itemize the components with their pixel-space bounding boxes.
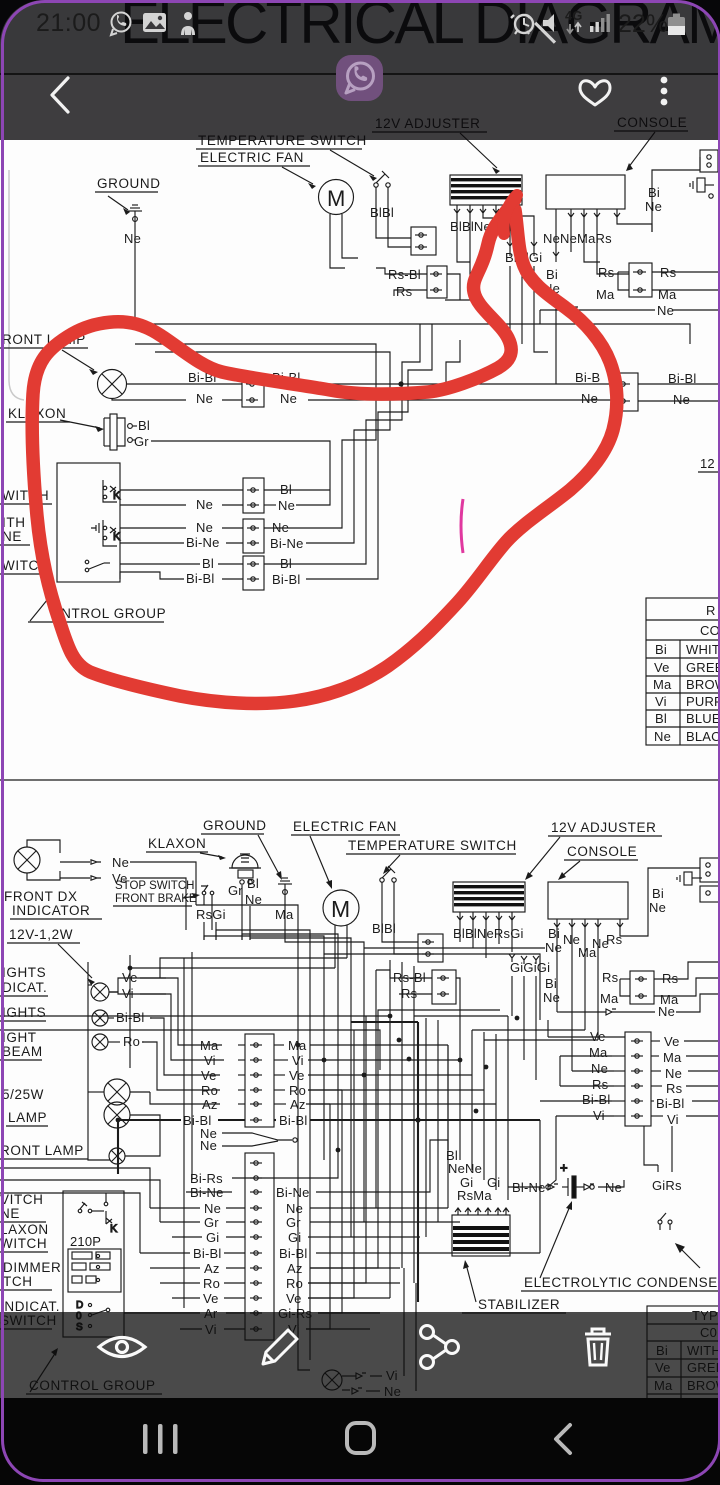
connector JA fig2 [418, 934, 443, 962]
4G icon [565, 8, 582, 33]
dimmer block [68, 1249, 121, 1292]
svg-text:210P: 210P [70, 1234, 101, 1249]
svg-text:GROUND: GROUND [203, 818, 267, 833]
svg-text:STABILIZER: STABILIZER [478, 1297, 560, 1312]
TEMPERATURE SWITCH label fig2 [346, 838, 517, 874]
switch S3 inside control group [85, 560, 110, 572]
svg-text:GROUND: GROUND [97, 176, 161, 191]
svg-text:Bi-Ne: Bi-Ne [186, 535, 220, 550]
svg-text:Gr: Gr [204, 1215, 219, 1230]
svg-text:4G: 4G [565, 8, 582, 23]
ground symbol fig2 [278, 878, 292, 940]
switch K1 inside control group [103, 480, 121, 502]
STOP SWITCH FRONT BRAKE label [113, 880, 200, 906]
svg-text:Rs: Rs [592, 1077, 609, 1092]
svg-text:Ma: Ma [589, 1045, 608, 1060]
ELECTROLYTIC CONDENSER label [521, 1201, 720, 1291]
svg-text:Bi-Bl: Bi-Bl [186, 571, 214, 586]
svg-text:RONT LAMP: RONT LAMP [0, 1143, 84, 1158]
klaxon dome fig2 [229, 854, 261, 884]
console component [546, 175, 625, 209]
right edge component speaker [690, 150, 718, 198]
connector J7 [243, 519, 264, 553]
klaxon component [104, 414, 132, 450]
svg-text:Ma: Ma [653, 677, 672, 692]
svg-text:Ne: Ne [196, 497, 213, 512]
electrolytic condenser symbol [546, 1160, 594, 1198]
svg-text:Gr: Gr [134, 434, 149, 449]
bottom lamp visible [322, 1370, 382, 1394]
svg-text:Bi: Bi [652, 886, 664, 901]
svg-text:Ne: Ne [654, 729, 671, 744]
Bi ne pin [553, 252, 559, 262]
left labels column [0, 965, 88, 1159]
svg-text:Ne: Ne [112, 855, 129, 870]
arrow right bottom [676, 1244, 700, 1268]
switch K2 inside control group [91, 520, 121, 546]
svg-text:NeNe: NeNe [448, 1161, 482, 1176]
svg-text:WITCH: WITCH [0, 1236, 47, 1251]
color table fig1 [646, 598, 720, 745]
svg-text:Rs: Rs [598, 265, 615, 280]
svg-text:BLACK: BLACK [686, 729, 720, 744]
connector C1 [245, 1034, 274, 1127]
svg-text:GiGiGi: GiGiGi [510, 960, 550, 975]
svg-text:Ne: Ne [657, 303, 674, 318]
row B wires Ne/Bi-Ne [120, 527, 186, 529]
kebab menu [661, 77, 668, 106]
photo edge curve [9, 170, 24, 400]
muted speaker icon [534, 14, 556, 44]
svg-text:Ma: Ma [596, 287, 615, 302]
svg-text:Ne: Ne [196, 391, 213, 406]
nested bus rectangles [135, 324, 460, 407]
CONSOLE label fig2 [558, 844, 638, 880]
svg-text:Bi: Bi [545, 976, 557, 991]
svg-text:Bi-Bl: Bi-Bl [656, 1096, 684, 1111]
row A wires Ne/Bl [120, 489, 243, 491]
svg-text:Ne: Ne [658, 1004, 675, 1019]
svg-text:Bi-Bl: Bi-Bl [279, 1113, 307, 1128]
svg-text:M: M [327, 186, 345, 211]
svg-text:STOP SWITCH: STOP SWITCH [115, 880, 194, 892]
svg-text:Ma: Ma [600, 991, 619, 1006]
svg-text:Ne: Ne [278, 498, 295, 513]
klaxon wires [133, 425, 137, 427]
svg-text:Bi-Bl: Bi-Bl [582, 1092, 610, 1107]
signal bars icon [590, 14, 610, 32]
svg-text:Ne: Ne [124, 231, 141, 246]
svg-text:DICAT.: DICAT. [2, 980, 47, 995]
12V-1,2W label [7, 927, 95, 985]
wires from motor down [330, 214, 345, 268]
svg-text:RsGi: RsGi [196, 907, 226, 922]
front lamp small [109, 1148, 125, 1164]
stop switch [201, 885, 214, 930]
svg-text:12: 12 [700, 456, 715, 471]
GROUND label fig2 [201, 818, 282, 880]
wire long bus y324 [135, 324, 690, 344]
svg-text:Ro: Ro [203, 1276, 220, 1291]
svg-text:Ma: Ma [663, 1050, 682, 1065]
Ne right wire fig2 [560, 1009, 655, 1015]
svg-text:Bi-Bl: Bi-Bl [116, 1010, 144, 1025]
left cut label ITH NE [0, 515, 30, 545]
wires temp switch to connector [376, 198, 411, 238]
svg-text:Ne: Ne [673, 392, 690, 407]
svg-text:Bi-Bl: Bi-Bl [279, 1246, 307, 1261]
ground symbol [128, 205, 142, 324]
connector J8 [243, 556, 264, 590]
whatsapp notification icon [111, 13, 131, 36]
cg2 K switch [106, 1211, 118, 1235]
right edge speaker fig2 [677, 858, 720, 902]
bold bus vertical [417, 1022, 419, 1302]
svg-text:ITH: ITH [2, 515, 26, 530]
svg-text:LAXON: LAXON [0, 1222, 49, 1237]
motor M fig2 [323, 890, 359, 926]
wires rs-bl [376, 268, 427, 274]
cg2 left labels [0, 1192, 61, 1329]
console component fig2 [548, 882, 628, 919]
svg-text:IGHT: IGHT [2, 1030, 37, 1045]
color table fig2 [647, 1306, 720, 1480]
control group label [28, 591, 166, 622]
svg-text:Bi-Bl: Bi-Bl [193, 1246, 221, 1261]
svg-text:+: + [560, 1160, 568, 1175]
svg-text:Ne: Ne [545, 940, 562, 955]
svg-text:Ve: Ve [289, 1068, 305, 1083]
connector C2 tall [245, 1153, 274, 1340]
svg-text:Bi-Ne: Bi-Ne [276, 1185, 310, 1200]
C2 right wires [274, 1160, 540, 1329]
svg-text:IGHTS: IGHTS [2, 1005, 46, 1020]
svg-text:12V ADJUSTER: 12V ADJUSTER [551, 820, 656, 835]
svg-text:Ne: Ne [591, 1061, 608, 1076]
red annotation loop [32, 199, 617, 703]
svg-text:KLAXON: KLAXON [148, 836, 206, 851]
svg-text:Ne: Ne [581, 391, 598, 406]
svg-text:BROWN: BROWN [686, 677, 720, 692]
svg-text:FRONT BRAKE: FRONT BRAKE [115, 893, 197, 905]
whatsapp purple badge [336, 55, 383, 101]
BlBlGi wires down [509, 266, 511, 330]
big lamp 5/25W [104, 1079, 130, 1105]
svg-text:Ve: Ve [664, 1034, 680, 1049]
svg-text:Rs: Rs [602, 970, 619, 985]
FRONT DX INDICATOR label [4, 889, 102, 919]
svg-text:Ro: Ro [286, 1276, 303, 1291]
trash tool icon [585, 1329, 611, 1365]
svg-text:Bi-B: Bi-B [575, 370, 600, 385]
D0S switch [76, 1300, 110, 1333]
motor M electric fan [319, 180, 354, 215]
svg-text:CO: CO [700, 623, 720, 638]
svg-text:Rs: Rs [666, 1081, 683, 1096]
svg-text:21:00: 21:00 [36, 9, 101, 37]
svg-text:Gr: Gr [228, 883, 243, 898]
left cut label WITCH2 [0, 558, 52, 574]
svg-text:Ve: Ve [286, 1291, 302, 1306]
svg-text:NE: NE [2, 529, 22, 544]
svg-text:Ne: Ne [280, 391, 297, 406]
svg-text:Ve: Ve [122, 970, 138, 985]
STABILIZER label [462, 1260, 566, 1313]
svg-text:Az: Az [204, 1261, 220, 1276]
svg-text:Ne: Ne [649, 900, 666, 915]
C2 left wires [124, 1150, 338, 1329]
svg-text:Ne: Ne [196, 520, 213, 535]
svg-text:BlBlNeRsGi: BlBlNeRsGi [453, 926, 524, 941]
svg-text:CONSOLE: CONSOLE [567, 844, 637, 859]
label TEMPERATURE SWITCH [196, 133, 377, 181]
svg-text:Ne: Ne [204, 1201, 221, 1216]
share tool icon [421, 1326, 459, 1369]
ELECTRIC FAN label fig2 [291, 819, 400, 889]
svg-text:K: K [113, 531, 121, 543]
svg-text:K: K [113, 490, 121, 502]
svg-text:NE: NE [0, 1206, 20, 1221]
adjuster wires down [457, 213, 470, 262]
KLAXON label [6, 406, 104, 432]
extra mesh verticals center [306, 1010, 500, 1329]
junction dot [398, 381, 403, 386]
Ne right bottom wire [540, 307, 655, 313]
svg-text:12V-1,2W: 12V-1,2W [9, 927, 73, 942]
svg-text:Vi: Vi [667, 1112, 679, 1127]
front lamp row wires Bi-Bl / Ne [126, 383, 242, 385]
svg-text:Ne: Ne [200, 1138, 217, 1153]
svg-text:Bi-Ne: Bi-Ne [270, 536, 304, 551]
svg-text:Bl: Bl [247, 876, 259, 891]
svg-text:RsMa: RsMa [457, 1188, 492, 1203]
connector J4 [242, 374, 264, 407]
svg-text:ELECTROLYTIC CONDENSER: ELECTROLYTIC CONDENSER [524, 1275, 720, 1290]
temperature switch S1 [374, 171, 390, 198]
stabilizer component [455, 1208, 509, 1215]
svg-text:Rs: Rs [396, 284, 413, 299]
wires right top [652, 157, 700, 232]
svg-text:M: M [331, 896, 350, 922]
svg-text:Ro: Ro [123, 1034, 140, 1049]
svg-text:NeNeMaRs: NeNeMaRs [543, 231, 612, 246]
console pins [556, 209, 620, 217]
svg-text:LAMP: LAMP [8, 1110, 47, 1125]
svg-text:Bi: Bi [655, 642, 667, 657]
temperature switch fig2 [380, 866, 396, 905]
svg-text:ELECTRIC FAN: ELECTRIC FAN [200, 150, 304, 165]
svg-text:Gr: Gr [286, 1215, 301, 1230]
svg-text:Vi: Vi [655, 694, 667, 709]
svg-text:DIMMER: DIMMER [3, 1260, 61, 1275]
connector C3 right [625, 1032, 651, 1126]
cg2 switch top [78, 1193, 108, 1213]
svg-text:Ve: Ve [203, 1291, 219, 1306]
left rail [88, 962, 110, 1160]
wires J3 [618, 271, 629, 273]
svg-text:BlBl: BlBl [372, 921, 396, 936]
svg-text:GiRs: GiRs [652, 1178, 682, 1193]
pencil tool icon [263, 1330, 297, 1364]
svg-text:IGHTS: IGHTS [2, 965, 46, 980]
label GROUND [95, 176, 161, 215]
svg-text:VITCH: VITCH [0, 1192, 44, 1207]
mesh vertical bus wires center [0, 905, 598, 1329]
bus wires to right [264, 383, 612, 385]
svg-text:INDICATOR: INDICATOR [12, 903, 90, 918]
lamp ve vi [91, 983, 109, 1001]
12V adjuster component fig2 [453, 882, 525, 912]
svg-text:GREEN: GREEN [686, 660, 720, 675]
svg-text:Ne: Ne [665, 1066, 682, 1081]
battery icon [668, 14, 685, 36]
12V adjuster component [450, 175, 522, 205]
alarm clock icon [511, 15, 533, 34]
svg-text:BEAM: BEAM [2, 1044, 43, 1059]
svg-text:Bl: Bl [138, 418, 150, 433]
svg-text:BlBl: BlBl [370, 205, 394, 220]
connector J3 right [629, 263, 652, 297]
svg-text:ELECTRIC FAN: ELECTRIC FAN [293, 819, 397, 834]
svg-text:Az: Az [287, 1261, 303, 1276]
adjuster pins [454, 205, 512, 213]
adjuster pins fig2 [457, 912, 515, 920]
svg-text:5/25W: 5/25W [2, 1087, 44, 1102]
svg-text:Gi: Gi [206, 1230, 219, 1245]
svg-text:TEMPERATURE SWITCH: TEMPERATURE SWITCH [348, 838, 517, 853]
lamp bi-bl [92, 1010, 108, 1026]
pink annotation stroke [461, 499, 463, 553]
svg-text:Ma: Ma [275, 907, 294, 922]
svg-text:TCH: TCH [3, 1274, 33, 1289]
bottom mesh verticals [298, 1126, 672, 1370]
Ne Ve indicator labels [91, 860, 101, 880]
KLAXON label fig2 [146, 836, 226, 860]
svg-text:Bl: Bl [202, 556, 214, 571]
svg-text:R: R [706, 603, 716, 618]
lamp ro [92, 1034, 108, 1050]
svg-text:22%: 22% [618, 10, 668, 38]
connector J2 [427, 266, 447, 298]
svg-text:Ve: Ve [654, 660, 670, 675]
svg-text:K: K [110, 1223, 118, 1235]
svg-text:Gi: Gi [288, 1230, 301, 1245]
connector J5 [612, 373, 638, 411]
heart icon [580, 81, 610, 105]
svg-text:Ne: Ne [645, 199, 662, 214]
connector JB fig2 [432, 970, 456, 1004]
front dx indicator lamp [14, 840, 60, 880]
svg-text:Bi-Rs: Bi-Rs [190, 1171, 223, 1186]
row C wires Bl/Bi-Bl [120, 563, 200, 565]
svg-text:FRONT DX: FRONT DX [4, 889, 78, 904]
svg-text:Bi: Bi [548, 926, 560, 941]
connector J6 [243, 478, 264, 513]
svg-text:Bl: Bl [655, 711, 667, 726]
home nav button [347, 1423, 374, 1453]
right small switch [658, 1213, 672, 1230]
back nav button [556, 1425, 570, 1453]
svg-text:Bi: Bi [546, 267, 558, 282]
svg-text:WHITE: WHITE [686, 642, 720, 657]
control group box [57, 463, 120, 582]
connector box J1 [411, 227, 436, 255]
person notification icon [181, 12, 195, 35]
red arrow head [504, 195, 517, 234]
svg-text:BLUE: BLUE [686, 711, 720, 726]
front lamp symbol [98, 370, 127, 399]
CONSOLE label [614, 115, 688, 171]
svg-text:D: D [76, 1300, 83, 1311]
gallery notification icon [143, 13, 166, 32]
svg-text:PURPL: PURPL [686, 694, 720, 709]
C3 wires [540, 968, 720, 1187]
back chevron [52, 78, 68, 112]
console wires down [555, 217, 557, 256]
label ELECTRIC FAN [198, 150, 316, 189]
12V adjuster label fig2 [525, 820, 662, 880]
BlBlGi pins [507, 242, 537, 256]
svg-text:Bi: Bi [648, 185, 660, 200]
recents nav button [143, 1424, 178, 1454]
CONTROL GROUP 2 label [26, 1348, 162, 1394]
12V adjuster label [372, 116, 500, 174]
svg-text:ONTROL GROUP: ONTROL GROUP [50, 606, 166, 621]
svg-text:Vi: Vi [122, 986, 134, 1001]
svg-text:Bi-Bl: Bi-Bl [272, 572, 300, 587]
control group 2 box [63, 1191, 124, 1337]
svg-text:Ma: Ma [658, 287, 677, 302]
figure separator line [0, 779, 720, 781]
left cut label WITCH [0, 488, 52, 504]
FRONT LAMP label [0, 332, 98, 375]
svg-text:Ne: Ne [286, 1201, 303, 1216]
eye tool icon [99, 1338, 145, 1357]
console pins fig2 [554, 919, 623, 927]
